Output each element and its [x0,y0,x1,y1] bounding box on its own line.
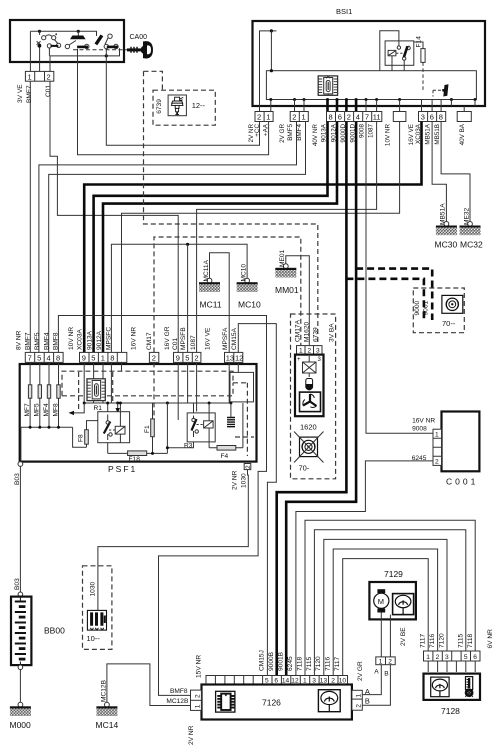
svg-text:7120: 7120 [315,656,322,671]
svg-text:BMF5: BMF5 [34,332,41,350]
gauge icon 7126 [318,690,340,712]
svg-text:MC14: MC14 [96,720,119,730]
BSI pin row group1 [255,112,273,122]
svg-text:2: 2 [257,113,261,122]
svg-text:A: A [374,668,379,675]
fuse MF7 [28,385,31,398]
svg-text:70--: 70-- [442,319,456,328]
harness wires BSI to PSF1 [30,81,470,675]
ground M000 [10,702,31,716]
wire A to 7126 [362,665,381,695]
internal bus [84,402,231,404]
key symbol CA00 [127,41,153,58]
1030 dashed box [83,566,112,650]
switch S2 foot bar [77,46,88,49]
wire C01 pin1 from bus corner [29,31,31,71]
svg-text:R3: R3 [184,443,193,450]
relay feed wire [380,31,399,71]
inner solid box right [230,372,254,402]
svg-text:2V BE: 2V BE [400,627,407,646]
battery icon [306,379,313,391]
box BSI1 [253,21,486,106]
junction dot key line [105,54,108,57]
svg-text:16V NR: 16V NR [131,327,138,350]
svg-text:8: 8 [439,113,443,122]
svg-text:CM15A: CM15A [231,327,238,350]
wire 7118 net [305,520,475,675]
7126 left pins [191,690,202,710]
switch S1 black blob [38,44,42,48]
junction dot bus B [77,30,80,33]
svg-text:+AA: +AA [263,123,270,136]
svg-text:8: 8 [110,354,114,363]
wire bus drop sw1 [39,31,41,35]
svg-text:7129: 7129 [384,569,403,579]
wire B03 [19,466,21,592]
svg-text:9013A: 9013A [87,330,94,350]
pin stubs below strip [271,100,475,112]
fan icon box [300,392,321,412]
svg-text:ME32: ME32 [463,207,470,225]
svg-text:2: 2 [436,654,440,661]
control unit 7126 [166,650,370,745]
svg-text:BMF4: BMF4 [296,124,303,141]
PSF1 pin group D [225,352,243,362]
svg-text:10--: 10-- [87,634,101,643]
wire MPSFC MPSFB MC10 net [111,244,247,352]
dashed F14 down [422,62,424,90]
wire BMF4 [49,122,306,353]
svg-text:MC11: MC11 [200,300,222,310]
svg-text:CM17A: CM17A [295,319,302,342]
svg-text:MC11A: MC11A [203,259,210,281]
svg-text:M000: M000 [10,720,32,730]
7128 pin row [424,651,481,661]
svg-text:8: 8 [329,113,333,122]
wire MC12B net [107,664,191,706]
crossed box icon [303,356,317,377]
C001 box [442,412,480,472]
fuse F1 [151,419,155,437]
svg-text:2: 2 [245,465,252,469]
labels above 7128 pins [420,629,494,649]
svg-text:B03: B03 [14,578,21,590]
svg-text:9012A: 9012A [96,330,103,350]
wire resistor [230,403,232,418]
svg-text:7118: 7118 [467,633,474,648]
svg-text:F18: F18 [129,456,141,463]
switch S2 ignition bar [70,36,86,40]
PSF1 fuse box [16,326,257,490]
svg-text:3: 3 [421,113,425,122]
wire MPSFB riser [187,244,189,352]
svg-text:5: 5 [185,354,189,363]
svg-text:1030: 1030 [89,581,96,596]
ground ME01 MM01 [275,264,296,278]
svg-text:2V GR: 2V GR [357,661,364,681]
svg-text:7116: 7116 [325,656,332,671]
svg-text:16V NR: 16V NR [412,418,435,425]
svg-text:9001: 9001 [423,300,430,315]
ignition switch box CA00 area [10,20,269,155]
svg-text:10V NR: 10V NR [385,124,392,147]
svg-text:3V BA: 3V BA [329,323,336,342]
svg-text:6: 6 [473,654,477,661]
wire 1030 net [98,470,248,611]
fuse MF5 [38,385,41,398]
7129 box [369,582,416,619]
svg-text:BMF5: BMF5 [287,124,294,141]
internal bus wire [30,31,96,36]
dashed branch 9000 [346,279,424,320]
6739 icon injector [168,95,186,116]
svg-text:3: 3 [445,654,449,661]
gauge icon 7128 [431,677,449,697]
svg-text:XC03A: XC03A [77,329,84,350]
svg-text:1: 1 [435,432,439,439]
wire +AA drop from S2 [78,49,269,155]
svg-text:12: 12 [235,354,243,363]
PSF1 pin group C [174,352,201,362]
wire XC03A thick [84,122,421,353]
svg-text:F1: F1 [144,425,151,433]
svg-text:MB51A: MB51A [424,123,431,144]
wire 1087 [197,122,377,353]
fan unit 7129 [357,569,416,705]
switch S1 contacts [37,35,61,48]
svg-text:1087: 1087 [368,124,375,139]
battery BB00 [10,466,119,730]
svg-text:M1620: M1620 [303,322,310,342]
svg-text:6V NR: 6V NR [487,629,494,649]
switch S1 drop to mid cell [39,48,41,72]
svg-text:BMF7: BMF7 [26,85,33,103]
PSF1 pin group B [80,352,127,362]
svg-text:BMF4: BMF4 [44,332,51,350]
7126 pin row [206,676,348,685]
svg-text:BB00: BB00 [44,626,65,636]
bus junction dots [83,402,86,405]
BSI pin empty cell [393,112,406,122]
wire 10V NR [122,122,400,353]
svg-text:6739: 6739 [156,99,163,114]
svg-text:CA00: CA00 [130,34,148,41]
7129 pins [376,657,395,665]
switch S2 feed [77,31,79,35]
svg-text:7118: 7118 [296,656,303,671]
svg-text:2: 2 [194,694,201,698]
wire BMF8 net [58,316,266,696]
svg-text:F4: F4 [221,453,229,460]
7128 box [424,674,481,700]
svg-text:2: 2 [356,704,363,708]
pyro component glyph in strip [433,84,449,96]
wire F18 [108,403,168,453]
ground MC10 [237,278,258,292]
battery cells [15,597,26,666]
svg-text:9000: 9000 [414,300,421,315]
svg-text:4: 4 [356,113,360,122]
inner connector strip [266,71,476,100]
svg-text:8V NR: 8V NR [16,330,23,350]
wire 7116 net [333,549,437,676]
wire 7120 net [324,539,447,675]
svg-text:5: 5 [91,354,95,363]
svg-text:15V NR: 15V NR [196,655,203,678]
svg-text:2V NR: 2V NR [188,725,195,745]
svg-text:MB51A: MB51A [440,203,447,225]
svg-text:9008: 9008 [412,426,427,433]
ground MC14 [96,702,117,716]
svg-text:1: 1 [299,347,303,354]
ground MC32 [460,222,481,236]
relay bottom wires [392,56,404,71]
svg-text:2: 2 [152,354,156,363]
wire 6245 [296,461,433,676]
arrow left glyph [74,403,84,413]
svg-text:B03: B03 [14,473,21,485]
switch S1 bottom bar [51,45,59,47]
svg-text:12--: 12-- [192,101,206,110]
gauge icon 7129 [393,594,414,615]
C001 pin cells [433,429,442,465]
strip bottom junction dots [269,98,476,101]
connector C001 [296,412,480,676]
svg-text:10V NR: 10V NR [68,327,75,350]
svg-text:+CC: +CC [254,124,261,137]
inner dashed box [62,371,233,396]
switch box [10,20,124,62]
svg-text:5: 5 [37,354,41,363]
crossed speaker icon [294,432,324,463]
wire 9008 [366,122,433,434]
1620 dashed box [291,314,336,479]
svg-text:1: 1 [28,72,32,81]
svg-text:40V BA: 40V BA [459,123,466,145]
7126 box [202,685,352,720]
svg-text:6: 6 [338,113,342,122]
motor M [374,589,389,612]
PSF1 labels above pins [16,326,239,350]
svg-text:16V VE: 16V VE [205,327,212,350]
wire F8 top [87,421,98,430]
BSI pin empty cell right [457,112,471,122]
PSF1 box [20,364,257,462]
svg-text:16V VE: 16V VE [408,124,415,145]
svg-text:B: B [384,670,389,677]
PSF1 pin group A [25,352,63,362]
wire 9013A thick [94,122,328,353]
relay K in BSI [385,41,414,65]
svg-text:C001: C001 [446,477,478,487]
dashed branch 9001 [356,269,432,320]
svg-text:1620: 1620 [300,423,317,432]
svg-text:13: 13 [226,354,234,363]
PSF1 bottom pin 2V NR [244,464,251,470]
svg-text:3V VE: 3V VE [17,84,24,103]
1620 pin row [297,346,323,354]
switch S3 foot bar [107,46,118,49]
svg-text:6245: 6245 [287,656,294,671]
svg-text:MB51B: MB51B [434,124,441,145]
svg-text:40V NR: 40V NR [312,124,319,147]
dashed net CM17 [154,237,301,352]
svg-text:MC12B: MC12B [101,679,108,702]
svg-text:1: 1 [379,658,383,665]
ground MC11 [199,278,220,292]
svg-text:CM15J: CM15J [259,650,266,671]
svg-text:2V GR: 2V GR [279,124,286,143]
connector icon PSF1 [87,379,105,401]
arrow down glyph [117,403,119,408]
fuse MF4 [47,385,50,398]
PSF1 pin CM17 [149,352,158,362]
svg-text:PSF1: PSF1 [108,464,137,474]
bottom harness wires [58,316,475,706]
internal wire to C01 pin2 [50,48,120,71]
svg-text:B: B [365,696,370,705]
svg-text:MC10: MC10 [238,300,261,310]
component 1620 assembly [291,314,336,479]
fuse MF8 [57,385,60,398]
switch S1 tick [55,33,57,35]
svg-text:2: 2 [47,72,51,81]
junction dot MPSFB [186,243,189,246]
wire F14 top [414,42,423,49]
wire 7117 net [343,559,429,676]
svg-text:9: 9 [176,354,180,363]
ground MC30 [436,222,457,236]
wire 7115 net [314,530,465,676]
svg-text:6739: 6739 [312,327,319,342]
svg-text:F8: F8 [78,434,85,442]
6739 component dashed box [153,90,215,125]
speaker icon right [442,295,463,313]
sensor unit 7128 [420,629,494,716]
fuse F18 [128,451,147,456]
svg-text:C01: C01 [45,85,52,97]
dashed 6739 box feed [144,71,163,90]
svg-text:MC12B: MC12B [166,698,189,705]
fuse F14 [421,49,425,63]
battery bottom terminal [18,665,23,670]
svg-text:MM01: MM01 [275,285,299,295]
svg-text:11: 11 [373,113,381,122]
svg-text:BMF8: BMF8 [170,688,188,695]
wire +CC drop from S3 [106,49,259,146]
svg-text:+: + [297,357,301,363]
svg-text:BSI1: BSI1 [336,7,352,16]
inner dashed verticals [79,362,254,456]
wire 9012A thick [103,122,337,353]
left bus wires [30,398,58,427]
svg-text:9008: 9008 [358,124,365,139]
svg-text:2: 2 [308,347,312,354]
wire to M000 [19,670,21,702]
fuse F8 [85,430,89,445]
wire MC11A MPSFA [210,253,230,353]
svg-text:CM17: CM17 [146,332,153,350]
wire 9001D thick [286,122,356,676]
svg-text:7: 7 [365,113,369,122]
switch S2 contacts [65,41,89,49]
svg-text:1087: 1087 [190,335,197,350]
wire to strip top [270,31,272,71]
switch S3 feed [96,31,98,36]
7126 right pins [352,690,362,710]
svg-text:1030: 1030 [241,473,248,488]
1620 body box [295,355,324,417]
wire C01 net [50,81,178,352]
svg-text:8: 8 [56,354,60,363]
connector C01 [25,71,53,81]
svg-text:7120: 7120 [439,633,446,648]
svg-text:MC30: MC30 [435,240,458,250]
svg-text:1: 1 [356,694,363,698]
svg-text:7117: 7117 [334,656,341,671]
resistor glyph [227,418,235,427]
labels MF [24,403,59,417]
wire BMF7 [29,81,31,352]
wire B to 7126 [362,665,390,706]
svg-text:2: 2 [388,658,392,665]
wire MB51A to MC30 [432,122,446,224]
fuse F4 [217,446,236,451]
svg-text:C01: C01 [172,338,179,350]
BSI pin row group2 [290,112,308,122]
svg-text:1: 1 [101,354,105,363]
svg-text:7128: 7128 [441,706,460,716]
svg-text:7115: 7115 [306,656,313,671]
wire to F4 [209,403,243,448]
battery top terminal [18,592,23,597]
IC icon [216,691,235,712]
7128 stubs [428,661,475,672]
svg-text:2: 2 [347,113,351,122]
svg-text:MPSFC: MPSFC [106,327,113,350]
right option box 9000/9001 [413,288,464,333]
switch S3 contacts [104,34,118,49]
labels above 7126 pins [259,650,342,671]
wires R1 [108,403,121,453]
svg-text:MC32: MC32 [460,240,483,250]
svg-text:2: 2 [292,113,296,122]
svg-text:1: 1 [266,113,270,122]
switch S3 black bar [95,35,104,46]
svg-text:BMF7: BMF7 [25,332,32,350]
wires 7129 down [381,613,390,657]
svg-text:1: 1 [426,654,430,661]
svg-text:3: 3 [316,347,320,354]
dashed net 6739 [144,71,318,345]
junction dot [270,29,273,32]
svg-text:1: 1 [194,704,201,708]
wire M1620 to ME01 [286,256,310,346]
svg-text:ME01: ME01 [279,249,286,267]
junction dot strip [270,69,273,72]
svg-text:6: 6 [430,113,434,122]
svg-text:MC10: MC10 [240,264,247,282]
svg-text:2: 2 [194,354,198,363]
svg-text:70-: 70- [299,464,310,473]
thermometer icon 7128 [465,677,474,698]
B03 connector circle [18,462,23,467]
battery body [11,597,31,666]
svg-text:9000B: 9000B [268,651,275,671]
svg-text:7117: 7117 [420,633,427,648]
svg-text:4: 4 [47,354,51,363]
BSI pin row group3 [327,112,382,122]
